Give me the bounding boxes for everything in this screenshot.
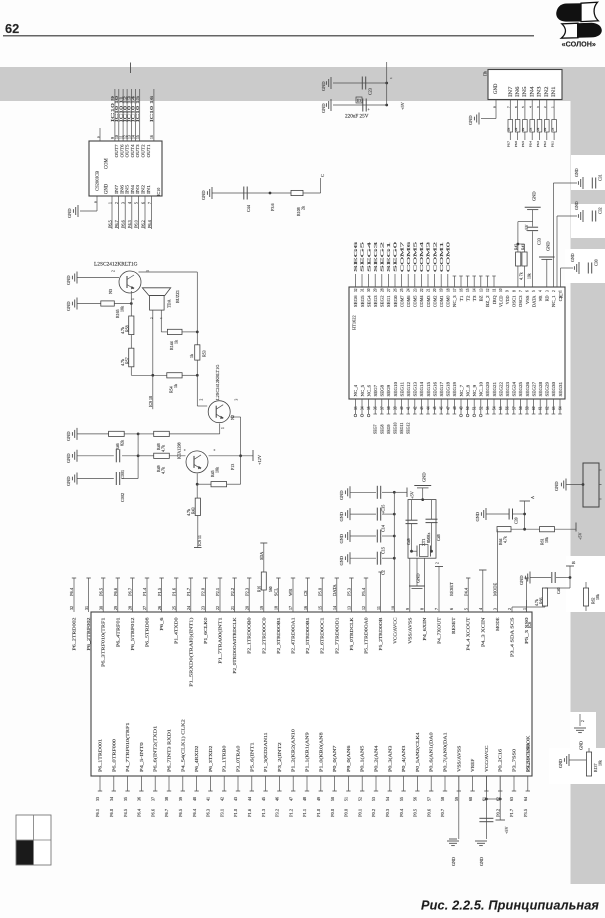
svg-text:GND: GND (570, 253, 575, 262)
svg-text:R43: R43 (191, 507, 196, 514)
svg-text:15: 15 (317, 606, 322, 610)
capacitor C31 in cutout (553, 168, 602, 287)
svg-text:2: 2 (543, 106, 547, 108)
svg-text:P9_0(AN6: P9_0(AN6 (346, 745, 351, 772)
svg-text:2: 2 (112, 270, 116, 272)
svg-text:P6.7: P6.7 (507, 141, 511, 147)
IN block pins 1-7 with resistors (507, 100, 557, 148)
svg-text:NC_3: NC_3 (452, 296, 457, 308)
svg-text:C30: C30 (594, 259, 599, 266)
svg-text:VSS: VSS (525, 295, 530, 304)
svg-text:4.7k: 4.7k (504, 536, 508, 543)
publisher logo SOLON (556, 2, 602, 38)
svg-text:2: 2 (552, 290, 556, 292)
svg-text:P3.5: P3.5 (523, 808, 528, 817)
svg-text:P4_7XOUT: P4_7XOUT (437, 617, 442, 644)
svg-text:1: 1 (559, 290, 563, 292)
IC10 bottom pin wires (107, 196, 152, 229)
wire pin11 stub (378, 572, 382, 612)
svg-text:4.7k: 4.7k (120, 327, 125, 334)
svg-text:30: 30 (98, 606, 103, 610)
svg-text:SEG3: SEG3 (373, 240, 378, 272)
svg-text:SEG11: SEG11 (399, 423, 404, 434)
svg-text:T2: T2 (465, 296, 470, 302)
svg-text:SEG4: SEG4 (366, 240, 371, 272)
connector box right edge (583, 463, 602, 507)
svg-text:GND: GND (66, 431, 71, 441)
svg-text:7: 7 (519, 290, 523, 292)
svg-text:P6.3: P6.3 (536, 141, 540, 147)
svg-text:R62: R62 (592, 597, 596, 604)
svg-text:7: 7 (148, 202, 152, 204)
svg-text:17: 17 (453, 288, 457, 292)
svg-text:P5.3: P5.3 (347, 587, 352, 596)
svg-text:P6.7: P6.7 (128, 587, 133, 596)
svg-text:11: 11 (493, 288, 497, 292)
svg-text:P3.2: P3.2 (275, 809, 280, 817)
svg-text:P4_7TRF010(TRF1: P4_7TRF010(TRF1 (125, 722, 130, 772)
svg-text:P5_1TRD0OA0: P5_1TRD0OA0 (364, 617, 369, 654)
svg-text:P4_4 XCOUT: P4_4 XCOUT (466, 617, 471, 650)
svg-text:P1_0(KR0(AN8: P1_0(KR0(AN8 (318, 731, 323, 772)
wire buzzer pin2 down (152, 310, 154, 375)
wire pin7 terminal (435, 562, 443, 612)
svg-text:SEG1: SEG1 (386, 242, 391, 272)
svg-text:16: 16 (150, 135, 154, 139)
svg-text:24: 24 (186, 606, 191, 610)
svg-text:47: 47 (446, 406, 450, 410)
svg-text:9: 9 (506, 290, 510, 292)
svg-text:P4_54(CLK1) CLK2: P4_54(CLK1) CLK2 (180, 718, 185, 772)
svg-text:C44: C44 (246, 204, 251, 212)
svg-text:P0.7: P0.7 (440, 808, 445, 817)
svg-text:19: 19 (440, 288, 444, 292)
svg-text:59: 59 (526, 406, 530, 410)
svg-text:IN6: IN6 (516, 86, 521, 97)
IC IC6 R5F212A7SNFA body (91, 612, 532, 776)
IC7 bottom pin numbers and stubs (354, 399, 563, 434)
svg-text:41: 41 (206, 797, 211, 801)
svg-text:SEG19: SEG19 (452, 382, 457, 397)
svg-text:P6_3TXD2: P6_3TXD2 (208, 745, 213, 772)
svg-text:48: 48 (302, 797, 307, 801)
svg-text:GND: GND (105, 183, 110, 194)
svg-text:P1.0: P1.0 (316, 808, 321, 817)
svg-text:SEG28: SEG28 (538, 382, 543, 397)
svg-text:GND: GND (416, 573, 421, 583)
transistor P13 KTA1298 (177, 442, 236, 473)
capacitor C14 (350, 508, 396, 532)
svg-text:RESET: RESET (451, 617, 456, 634)
capacitor C15 (350, 530, 396, 555)
svg-text:SEG10: SEG10 (393, 422, 398, 434)
ground GND row B (66, 450, 77, 463)
svg-text:COM3: COM3 (426, 296, 431, 308)
svg-text:P4.4: P4.4 (463, 587, 468, 596)
svg-text:28: 28 (128, 606, 133, 610)
svg-text:R41: R41 (521, 244, 525, 250)
svg-text:38: 38 (387, 406, 391, 410)
power +5V terminal mid (394, 488, 414, 500)
svg-text:T3: T3 (472, 296, 477, 302)
svg-text:P6.5: P6.5 (178, 808, 183, 817)
svg-text:C14: C14 (381, 524, 386, 532)
node A terminal (520, 496, 536, 529)
svg-text:IC10 15: IC10 15 (135, 96, 140, 122)
svg-text:+5V: +5V (504, 827, 509, 834)
svg-text:35: 35 (367, 406, 371, 410)
svg-text:GND: GND (494, 83, 499, 94)
svg-text:COM2: COM2 (432, 296, 437, 308)
svg-text:56: 56 (413, 797, 418, 801)
svg-text:32: 32 (354, 288, 358, 292)
svg-text:2k: 2k (550, 127, 554, 131)
svg-text:2: 2 (507, 608, 512, 610)
svg-text:SEG7: SEG7 (373, 384, 378, 397)
transistor N2 (200, 399, 239, 430)
node junction +12V rail (239, 454, 242, 457)
svg-text:L2SC2412KRLT1G: L2SC2412KRLT1G (215, 364, 220, 400)
svg-text:8: 8 (492, 106, 496, 108)
svg-text:IC9 11: IC9 11 (197, 535, 202, 546)
ground GND at R165 (66, 298, 77, 312)
wire +5V rail row1 (333, 82, 387, 84)
svg-text:GND: GND (574, 201, 579, 210)
ground GND at C40 (519, 572, 530, 586)
svg-text:59: 59 (454, 797, 459, 801)
capacitor C40 (530, 572, 571, 594)
capacitor C33 (527, 227, 541, 287)
svg-text:P6.6: P6.6 (113, 587, 118, 596)
svg-text:R66: R66 (540, 597, 544, 604)
buzzer BUZZ1 speaker cone (142, 288, 170, 296)
svg-text:P6_6(INT2(TXD1: P6_6(INT2(TXD1 (153, 725, 158, 772)
svg-text:DATA: DATA (332, 584, 337, 596)
svg-text:P6_4RXD2: P6_4RXD2 (194, 745, 199, 772)
svg-text:29: 29 (374, 288, 378, 292)
svg-text:KTA1298: KTA1298 (177, 442, 182, 459)
svg-text:4. 7k: 4. 7k (520, 272, 524, 280)
svg-text:E3: E3 (357, 99, 361, 103)
IC10 top pin wires into band (110, 89, 154, 141)
svg-text:SEG16: SEG16 (432, 381, 437, 396)
svg-text:P0.0: P0.0 (344, 808, 349, 817)
svg-text:36: 36 (374, 406, 378, 410)
svg-text:13: 13 (347, 606, 352, 610)
svg-text:22: 22 (420, 288, 424, 292)
svg-text:IN2: IN2 (545, 86, 550, 97)
svg-text:R61: R61 (541, 538, 545, 545)
svg-text:HT1622: HT1622 (352, 315, 357, 330)
svg-text:OUT3: OUT3 (135, 145, 140, 158)
svg-text:P6_5TRD08: P6_5TRD08 (145, 617, 150, 648)
ground GND at connector (554, 479, 584, 492)
IC IC7 HT1622 body (349, 287, 565, 399)
svg-text:P3.6: P3.6 (270, 203, 275, 211)
svg-text:2k: 2k (543, 127, 547, 131)
svg-text:P0.2: P0.2 (371, 809, 376, 817)
svg-text:P6.6: P6.6 (121, 219, 126, 228)
svg-text:P2_2TRD0OC0: P2_2TRD0OC0 (261, 617, 266, 654)
svg-text:P6.1: P6.1 (550, 141, 554, 147)
svg-text:P13: P13 (230, 464, 235, 470)
svg-text:COM4: COM4 (419, 295, 424, 307)
svg-text:MODE: MODE (493, 582, 498, 596)
IN block pin 8 GND wire (468, 100, 496, 126)
svg-text:C39: C39 (514, 517, 519, 524)
svg-text:P2_6TRD0OC1: P2_6TRD0OC1 (320, 617, 325, 654)
svg-text:33: 33 (95, 797, 100, 801)
svg-text:P6.1: P6.1 (95, 809, 100, 817)
svg-text:P6.4: P6.4 (529, 141, 533, 147)
capacitor C23 (362, 77, 372, 96)
svg-text:5: 5 (532, 290, 536, 292)
IC6 internal top function labels (72, 616, 530, 686)
svg-text:MODE: MODE (495, 617, 500, 630)
svg-text:VREF: VREF (470, 758, 475, 772)
wire vertical +5V node (387, 62, 393, 105)
svg-text:8: 8 (420, 608, 425, 610)
svg-text:GND: GND (66, 301, 71, 311)
svg-text:P1.4: P1.4 (142, 587, 147, 596)
resistor R53 (189, 345, 207, 360)
svg-text:+5V: +5V (578, 533, 583, 540)
svg-text:P3_0TRA0: P3_0TRA0 (236, 745, 241, 772)
svg-text:SEG23: SEG23 (505, 382, 510, 397)
svg-text:6: 6 (514, 106, 518, 108)
svg-text:14: 14 (332, 606, 337, 610)
IC IC10 CS200ICB body (89, 141, 162, 196)
svg-text:10: 10 (499, 288, 503, 292)
svg-text:49: 49 (316, 797, 321, 801)
svg-text:12: 12 (486, 288, 490, 292)
svg-text:«СОЛОН»: «СОЛОН» (562, 40, 596, 49)
svg-text:IN1: IN1 (146, 185, 151, 194)
svg-text:P6_7INT3 RXD1: P6_7INT3 RXD1 (167, 728, 172, 772)
resistor R43 (186, 484, 200, 516)
svg-text:SEG9: SEG9 (386, 385, 391, 397)
svg-text:2: 2 (581, 720, 585, 722)
svg-text:GND: GND (339, 512, 344, 522)
svg-text:P6.2: P6.2 (140, 220, 145, 228)
node junction N3 emitter (130, 291, 133, 316)
svg-text:NC_8: NC_8 (465, 385, 470, 397)
svg-text:RD: RD (545, 296, 550, 302)
svg-text:55: 55 (399, 797, 404, 801)
svg-text:SEG20: SEG20 (485, 382, 490, 397)
svg-text:10k: 10k (545, 537, 549, 543)
wire R58 to R57 (130, 335, 132, 349)
svg-text:GND: GND (558, 759, 563, 768)
svg-text:58: 58 (519, 406, 523, 410)
svg-text:GND: GND (201, 190, 206, 200)
svg-text:OUT6: OUT6 (119, 143, 124, 157)
svg-text:VSS/AVSS: VSS/AVSS (407, 617, 412, 644)
svg-text:4: 4 (529, 106, 533, 108)
svg-text:BZ_2: BZ_2 (485, 296, 490, 308)
wire SDA with resistor R16 (257, 543, 273, 612)
svg-text:SEG7: SEG7 (373, 424, 378, 434)
node junction emitter (196, 483, 199, 486)
svg-text:44: 44 (427, 406, 431, 410)
svg-text:P2_7TRD0OD1: P2_7TRD0OD1 (334, 617, 339, 654)
wire net IC9 11 (194, 516, 202, 548)
svg-text:10k: 10k (596, 594, 600, 600)
resistor R57 (120, 348, 134, 367)
svg-text:61: 61 (539, 406, 543, 410)
svg-text:C48: C48 (436, 534, 441, 541)
svg-text:40: 40 (400, 406, 404, 410)
registration mark checker (16, 815, 51, 865)
svg-text:GND: GND (339, 490, 344, 500)
svg-text:COM3: COM3 (426, 240, 431, 272)
svg-text:NC_7: NC_7 (459, 384, 464, 397)
svg-text:SEG12: SEG12 (406, 422, 411, 434)
svg-text:P0_3(AN3: P0_3(AN3 (387, 745, 392, 772)
svg-text:2k: 2k (301, 206, 306, 210)
svg-text:P6.4: P6.4 (137, 808, 142, 817)
svg-text:13: 13 (479, 288, 483, 292)
wire P13 emitter down (196, 473, 198, 484)
capacitor C002 (77, 472, 138, 502)
svg-text:COM1: COM1 (439, 296, 444, 308)
ground GND above C33 (525, 191, 541, 226)
svg-text:P1_1(KR1(AN9: P1_1(KR1(AN9 (305, 731, 310, 772)
IC6 internal bottom function labels (98, 718, 531, 772)
svg-text:P6_4TRF01: P6_4TRF01 (115, 617, 120, 648)
svg-text:54: 54 (385, 797, 390, 801)
svg-text:SEG31: SEG31 (558, 382, 563, 397)
svg-text:62: 62 (5, 21, 19, 36)
svg-text:R42: R42 (515, 244, 519, 250)
ground GND at C39 (475, 508, 486, 522)
svg-text:GND: GND (554, 481, 559, 491)
svg-text:C32: C32 (598, 207, 603, 214)
svg-text:43: 43 (420, 406, 424, 410)
svg-text:COM2: COM2 (432, 242, 437, 272)
svg-text:C2: C2 (381, 570, 386, 575)
wire R53 to rail (196, 360, 198, 375)
svg-text:SEG9: SEG9 (386, 424, 391, 434)
svg-text:60: 60 (468, 797, 473, 801)
svg-text:15: 15 (136, 135, 140, 139)
ground GND row2 (321, 99, 331, 113)
svg-text:SEG25: SEG25 (518, 382, 523, 397)
svg-text:WR: WR (288, 589, 293, 596)
svg-text:3: 3 (493, 608, 498, 610)
svg-text:P1.6: P1.6 (171, 587, 176, 596)
svg-text:GND: GND (67, 208, 72, 218)
svg-text:46: 46 (440, 406, 444, 410)
svg-text:P2_1TRD0OB0: P2_1TRD0OB0 (247, 617, 252, 654)
svg-text:4.7k: 4.7k (535, 599, 539, 606)
svg-text:R16: R16 (257, 586, 261, 592)
svg-text:+C35: +C35 (381, 505, 386, 514)
svg-text:6: 6 (141, 202, 145, 204)
terminal 2 in strip (574, 714, 586, 750)
svg-text:TDA: TDA (167, 299, 172, 308)
svg-text:2k: 2k (507, 127, 511, 131)
svg-text:53: 53 (371, 797, 376, 801)
svg-text:560: 560 (269, 586, 273, 592)
svg-text:P1_2(KR2(AN10: P1_2(KR2(AN10 (291, 728, 296, 772)
svg-text:34: 34 (109, 797, 114, 801)
svg-text:P4_3 XCIN: P4_3 XCIN (480, 617, 485, 648)
svg-text:T1: T1 (459, 296, 464, 302)
svg-text:P6_2TRD002: P6_2TRD002 (72, 617, 77, 651)
crystal XT1 symbol (410, 533, 433, 557)
svg-text:P0.0: P0.0 (330, 808, 335, 817)
svg-text:+: + (213, 449, 217, 451)
capacitor C35 (350, 486, 394, 514)
svg-text:54: 54 (493, 406, 497, 410)
wire pin61 with capacitor (475, 776, 493, 866)
svg-text:COM5: COM5 (413, 240, 418, 272)
ground GND at R137 (558, 754, 586, 768)
wire C44 row (212, 192, 291, 194)
svg-text:IN3: IN3 (538, 86, 543, 97)
svg-text:9: 9 (96, 136, 100, 138)
node junction R144 R53 (196, 331, 199, 334)
svg-text:SEG3: SEG3 (373, 296, 378, 308)
svg-text:42: 42 (219, 797, 224, 801)
svg-text:38: 38 (164, 797, 169, 801)
svg-text:SEG29: SEG29 (545, 382, 550, 397)
svg-text:SEG15: SEG15 (426, 382, 431, 397)
resistor R54 (167, 373, 198, 393)
wire pin4 terminal (479, 570, 487, 612)
svg-text:10k: 10k (528, 273, 532, 279)
svg-text:COM4: COM4 (419, 240, 424, 272)
svg-text:3: 3 (122, 202, 126, 204)
svg-text:10k: 10k (599, 760, 603, 766)
svg-text:P4_6XIN: P4_6XIN (422, 617, 427, 641)
svg-text:1: 1 (221, 427, 225, 429)
caption Ris 2.2.5 (421, 899, 599, 913)
svg-text:16: 16 (303, 606, 308, 610)
svg-text:GND: GND (66, 275, 71, 285)
svg-text:10: 10 (390, 606, 395, 610)
label -5V branch (517, 222, 533, 252)
svg-text:3: 3 (235, 399, 239, 401)
svg-text:NC_1: NC_1 (551, 296, 556, 308)
svg-text:45: 45 (433, 406, 437, 410)
svg-text:C33: C33 (537, 238, 542, 245)
svg-text:SEG2: SEG2 (380, 242, 385, 272)
resistor R108 (291, 190, 306, 216)
IC10 pin 9 stub (96, 128, 100, 141)
svg-text:GND: GND (422, 472, 427, 482)
svg-text:P0.4: P0.4 (399, 808, 404, 817)
IC7 top pin function labels (353, 294, 563, 307)
svg-text:11: 11 (376, 606, 381, 610)
svg-text:P6_0TRF000: P6_0TRF000 (111, 738, 116, 772)
svg-text:18: 18 (446, 288, 450, 292)
svg-text:52: 52 (479, 406, 483, 410)
svg-text:IN4: IN4 (130, 184, 135, 194)
svg-text:63: 63 (509, 797, 514, 801)
ground GND cap row2 (339, 508, 350, 521)
svg-text:4.7k: 4.7k (161, 445, 166, 452)
ground GND cap row1 (339, 486, 350, 500)
svg-text:COM7: COM7 (399, 240, 404, 272)
svg-text:C002: C002 (120, 493, 125, 502)
svg-text:SEG0: SEG0 (393, 240, 398, 272)
svg-text:15: 15 (466, 288, 470, 292)
wire N3 collector to R53 rail (139, 272, 198, 345)
svg-text:P6.7: P6.7 (164, 808, 169, 817)
svg-text:45: 45 (261, 797, 266, 801)
